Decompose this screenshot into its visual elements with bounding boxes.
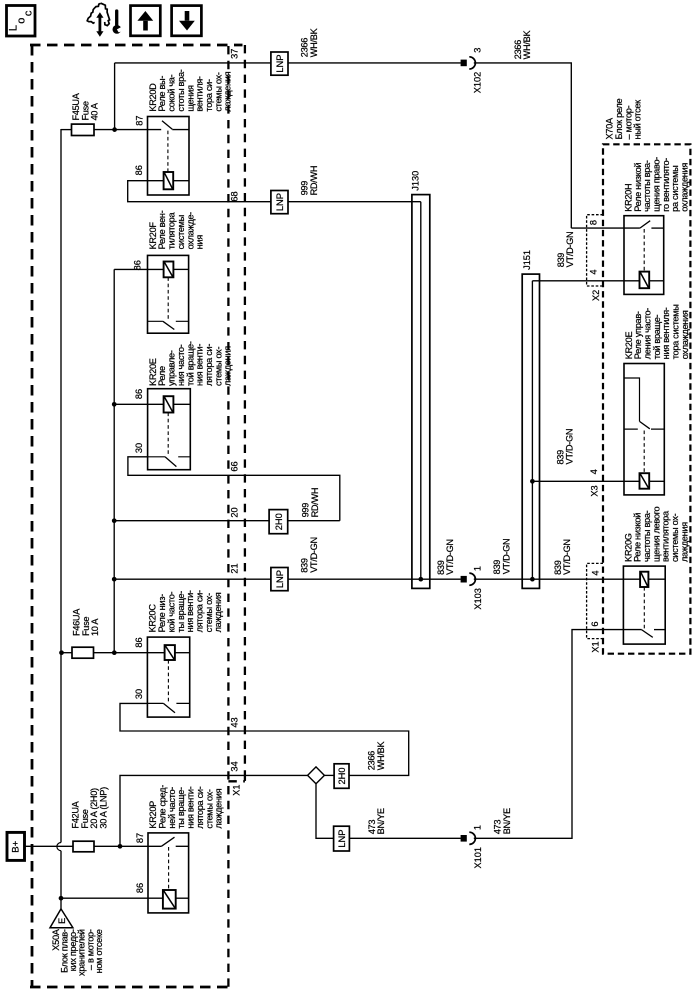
- svg-text:J130: J130: [411, 171, 421, 191]
- relay KR20E (X70A) switch blade: [640, 421, 650, 428]
- junction F42UA out: [118, 844, 123, 849]
- svg-text:34: 34: [229, 761, 239, 771]
- jumper J130: [412, 195, 430, 589]
- relay KR20E box: [148, 389, 191, 470]
- svg-text:BN/YE: BN/YE: [376, 808, 386, 834]
- svg-text:X1: X1: [591, 641, 601, 652]
- wire 2366 WH/BK X102 to X70A corner: [474, 63, 572, 228]
- svg-text:2H0: 2H0: [274, 513, 284, 530]
- relay KR20F switch: [148, 320, 189, 322]
- wire KR20G coil right: [648, 578, 665, 580]
- wire KR20D coil right: [173, 180, 189, 182]
- relay KR20D actuator: [167, 131, 169, 172]
- wire 999 RD/WH 20 2H0: [114, 520, 340, 522]
- wire KR20E 30 bend 66: [128, 457, 340, 521]
- relay KR20F box: [148, 255, 189, 333]
- svg-text:30: 30: [134, 443, 144, 453]
- svg-text:RD/WH: RD/WH: [309, 166, 319, 196]
- relay KR20F label: [148, 210, 205, 249]
- svg-text:E: E: [57, 918, 67, 924]
- svg-text:43: 43: [229, 717, 239, 727]
- relay KR20F coil: [164, 262, 174, 278]
- relay KR20G actuator: [643, 587, 645, 629]
- junction J151 conductor at 839 wire: [530, 577, 535, 582]
- wire KR20P 86 to ground: [61, 897, 163, 899]
- relay KR20D label: [148, 69, 233, 111]
- connector X103: [461, 573, 476, 585]
- svg-text:лаждения: лаждения: [213, 592, 223, 632]
- svg-text:VT/D-GN: VT/D-GN: [309, 537, 319, 573]
- svg-text:21: 21: [229, 563, 239, 573]
- svg-text:охлаждения: охлаждения: [680, 163, 690, 212]
- svg-text:ном отсеке: ном отсеке: [94, 929, 104, 973]
- svg-text:X101: X101: [473, 847, 483, 868]
- X1 connector strip (double dashed): [228, 45, 245, 987]
- svg-text:1: 1: [472, 825, 482, 830]
- svg-text:20: 20: [229, 507, 239, 517]
- fuse F45UA value label: [71, 92, 100, 120]
- svg-text:8: 8: [589, 220, 599, 225]
- wire 34 from F42UA junction: [120, 775, 308, 846]
- svg-text:86: 86: [134, 389, 144, 399]
- svg-text:L: L: [8, 25, 20, 31]
- crossover hop at B+ wire: [57, 843, 61, 851]
- relay KR20E (X70A) 87a path: [624, 378, 640, 421]
- adjustable-component icon (jagged outline with up-down arrow): [87, 3, 109, 37]
- wire 473 BN/YE X101 to KR20G pin6: [474, 630, 642, 839]
- option box LNP (wire 37): [271, 52, 288, 75]
- svg-text:ния: ния: [195, 235, 205, 250]
- wire label 2366 WH/BK (wire 43 end): [367, 741, 386, 771]
- svg-text:X102: X102: [473, 72, 483, 93]
- svg-text:WH/BK: WH/BK: [522, 30, 532, 60]
- svg-text:VT/D-GN: VT/D-GN: [502, 539, 512, 575]
- wire 839 J151 to KR20H pin4: [532, 280, 639, 282]
- wire 37 feed up from fuse junction: [114, 63, 116, 130]
- wire B+ to F42UA: [26, 845, 74, 847]
- wire 839 X103 to KR20G: [474, 578, 640, 580]
- down-arrow button: [172, 6, 202, 36]
- svg-text:30: 30: [134, 689, 144, 699]
- option box LNP (wire 21): [271, 568, 288, 591]
- up-arrow button: [131, 6, 161, 36]
- wire KR20F coil right: [173, 268, 188, 270]
- svg-text:40 A: 40 A: [90, 102, 100, 120]
- wire KR20F 86: [114, 268, 163, 270]
- label X70A: [605, 99, 643, 140]
- relay KR20E (X70A) label: [624, 304, 690, 359]
- svg-text:2H0: 2H0: [337, 767, 347, 784]
- svg-text:RD/WH: RD/WH: [310, 488, 320, 518]
- relay KR20E (X70A) box: [624, 364, 664, 495]
- wire label 999 RD/WH (wire 20): [300, 488, 319, 518]
- wrench icon: [113, 11, 124, 36]
- svg-text:86: 86: [134, 637, 144, 647]
- svg-text:ный отсек: ный отсек: [633, 99, 643, 140]
- svg-text:VT/D-GN: VT/D-GN: [445, 539, 455, 575]
- relay KR20C switch: [147, 702, 189, 704]
- wire KR20P coil right: [176, 897, 189, 899]
- svg-text:X1: X1: [231, 785, 241, 796]
- svg-text:J151: J151: [522, 250, 532, 270]
- relay KR20E (X70A) coil: [640, 473, 650, 489]
- wire label 839 VT/D-GN (X103-J151): [492, 539, 511, 575]
- relay KR20G box: [623, 566, 665, 644]
- wire F45UA out to KR20D 87: [94, 129, 161, 131]
- svg-text:87: 87: [135, 833, 145, 843]
- wire label 999 RD/WH (at LNP): [299, 166, 318, 196]
- svg-text:68: 68: [230, 191, 240, 201]
- svg-text:66: 66: [229, 461, 239, 471]
- svg-text:VT/D-GN: VT/D-GN: [562, 539, 572, 575]
- svg-text:LNP: LNP: [275, 55, 285, 73]
- option split diamond: [308, 767, 325, 784]
- svg-text:B+: B+: [11, 840, 22, 852]
- wire J130 internal conductor: [420, 202, 422, 580]
- connector X101: [461, 832, 476, 844]
- wire diamond to 2H0: [324, 774, 334, 776]
- relay KR20E (X70A) actuator: [643, 431, 645, 474]
- svg-text:3: 3: [472, 48, 482, 53]
- relay KR20P switch blade: [161, 837, 174, 846]
- relay KR20C actuator: [167, 660, 169, 702]
- svg-text:1: 1: [472, 566, 482, 571]
- relay KR20H switch blade: [640, 221, 650, 228]
- relay KR20E actuator: [167, 413, 169, 456]
- svg-text:86: 86: [135, 883, 145, 893]
- relay KR20P actuator: [168, 847, 170, 890]
- wire 37 to LNP: [115, 62, 271, 64]
- relay KR20C coil: [165, 645, 175, 660]
- connector X102: [461, 57, 476, 69]
- relay KR20F actuator: [167, 277, 169, 320]
- relay KR20G coil: [640, 572, 648, 587]
- fuse F46UA value label: [72, 608, 101, 636]
- wire KR20P 87 right stub: [176, 845, 189, 847]
- relay KR20D coil: [164, 172, 174, 189]
- svg-text:лаждения: лаждения: [223, 346, 233, 386]
- connector X2 dashed box: [587, 215, 603, 286]
- B+ terminal: [7, 832, 25, 860]
- svg-text:WH/BK: WH/BK: [376, 741, 386, 771]
- svg-text:лаждения: лаждения: [214, 788, 224, 828]
- junction F45UA out: [112, 127, 117, 132]
- svg-text:лаждения: лаждения: [223, 71, 233, 111]
- wire label 2366 WH/BK (at LNP): [299, 27, 318, 57]
- wire label 473 BN/YE (right): [493, 808, 512, 834]
- junction J130 conductor at 839 wire: [418, 577, 423, 582]
- svg-text:4: 4: [589, 269, 599, 274]
- svg-text:лаждения: лаждения: [679, 522, 689, 562]
- wire label 839 VT/D-GN (wire 21 left): [300, 537, 319, 573]
- svg-text:X2: X2: [591, 290, 601, 301]
- relay KR20E coil: [164, 396, 174, 412]
- junction riser F46UA: [59, 650, 64, 655]
- X50A fuse block dashed border: [30, 45, 243, 987]
- svg-text:10 A: 10 A: [90, 618, 100, 636]
- junction 839 wire tap: [112, 577, 117, 582]
- wire F42UA out to KR20P 87: [94, 845, 161, 847]
- option box LNP (wire 68): [271, 191, 288, 214]
- X1 strip end tick: [244, 775, 246, 781]
- label X50A: [51, 928, 104, 976]
- X70A relay box dashed border: [603, 144, 690, 653]
- junction J151 conductor X3 tap: [530, 479, 535, 484]
- svg-text:охлаждения: охлаждения: [680, 310, 690, 359]
- relay KR20P label: [148, 785, 223, 829]
- relay KR20E switch: [148, 456, 191, 458]
- wire 999 RD/WH LNP to J130: [288, 201, 421, 203]
- wire 473 BN/YE LNP to X101: [349, 837, 460, 839]
- junction ground KR20P 86: [59, 896, 64, 901]
- relay KR20G label: [623, 506, 689, 562]
- wire riser x61 lower to ground: [60, 851, 62, 909]
- wire F46UA left: [62, 652, 73, 654]
- LOC link box: [7, 6, 36, 37]
- fuse F42UA: [73, 841, 94, 852]
- wire KR20G switch right stub: [654, 629, 665, 631]
- relay KR20G switch blade: [642, 630, 653, 638]
- wire label 839 VT/D-GN (at X3): [555, 429, 574, 465]
- svg-text:4: 4: [589, 469, 599, 474]
- connector X1 (X70A) dashed box: [587, 563, 603, 638]
- relay KR20D box: [148, 117, 190, 196]
- relay KR20C label: [148, 590, 223, 632]
- wire KR20D 86 bend: [128, 181, 271, 202]
- jumper J151: [522, 274, 539, 588]
- wire 2366 WH/BK LNP to X102: [288, 62, 461, 64]
- fuse F42UA value label: [71, 787, 109, 829]
- wire KR20E(r) coil right: [649, 480, 664, 482]
- svg-text:LNP: LNP: [337, 830, 347, 848]
- wire KR20D 87 right stub: [172, 129, 189, 131]
- wire KR20E 86: [114, 403, 163, 405]
- wire riser x61 upper: [60, 129, 62, 843]
- option box 2H0 (wire 34): [334, 764, 349, 789]
- svg-text:87: 87: [135, 115, 145, 125]
- svg-text:BN/YE: BN/YE: [502, 808, 512, 834]
- svg-text:86: 86: [134, 165, 144, 175]
- wire label 839 VT/D-GN (J130-X103): [436, 539, 455, 575]
- svg-text:86: 86: [133, 260, 143, 270]
- relay KR20H actuator: [643, 229, 645, 272]
- option box LNP (wire 34): [334, 826, 350, 851]
- wire label 2366 WH/BK (at X102): [513, 30, 532, 60]
- svg-text:VT/D-GN: VT/D-GN: [565, 429, 575, 465]
- option box 2H0 (wire 20): [269, 510, 288, 534]
- relay KR20P coil: [163, 890, 176, 909]
- svg-text:LNP: LNP: [275, 570, 285, 588]
- junction KR20E 86 tap: [112, 402, 117, 407]
- relay KR20H box: [624, 216, 664, 295]
- junction F46UA out: [112, 650, 117, 655]
- wire label 473 BN/YE (left): [367, 808, 386, 834]
- svg-text:X3: X3: [590, 485, 600, 496]
- wire J151 internal conductor: [531, 281, 533, 579]
- svg-text:6: 6: [590, 621, 600, 626]
- wire KR20H switch right stub: [651, 227, 663, 229]
- svg-text:X103: X103: [473, 588, 483, 609]
- relay KR20C box: [147, 637, 189, 717]
- svg-text:VT/D-GN: VT/D-GN: [565, 232, 575, 268]
- relay KR20E (X70A) contact line: [624, 428, 664, 430]
- wire 839 VT/D-GN 21 main: [114, 578, 461, 580]
- junction 2H0 wire tap: [112, 518, 117, 523]
- relay KR20H label: [624, 157, 690, 212]
- relay KR20D switch blade: [162, 121, 172, 130]
- svg-text:o: o: [16, 18, 28, 24]
- wire F45UA feed riser top corner: [61, 129, 72, 131]
- wire label 839 VT/D-GN (at X2): [556, 232, 575, 268]
- relay KR20E label: [148, 341, 233, 386]
- wire 839 J151 to KR20E pin4 X3: [531, 480, 640, 482]
- relay KR20H coil: [640, 272, 650, 289]
- wire label 839 VT/D-GN (J151-X1): [553, 539, 572, 575]
- ground E triangle: [50, 909, 73, 928]
- svg-text:WH/BK: WH/BK: [309, 27, 319, 57]
- wire 2366 to KR20H pin8: [571, 227, 640, 229]
- relay KR20P box: [148, 833, 189, 913]
- wire vbus x114 KR20F-F46UA: [113, 269, 115, 652]
- svg-text:4: 4: [591, 570, 601, 575]
- svg-text:LNP: LNP: [275, 193, 285, 211]
- fuse F45UA: [72, 124, 95, 135]
- wire KR20C 30 bend 43: [120, 703, 409, 775]
- wire F46UA out to KR20C 86: [94, 652, 165, 654]
- wire 473 BN/YE diamond down to LNP: [316, 784, 334, 839]
- svg-text:30 A (LNP): 30 A (LNP): [99, 787, 109, 829]
- wire KR20H coil right: [649, 280, 664, 282]
- fuse F46UA: [72, 647, 94, 658]
- wire KR20E coil right: [173, 403, 190, 405]
- wire KR20C coil right: [175, 652, 190, 654]
- svg-text:37: 37: [230, 49, 240, 59]
- svg-text:c: c: [22, 10, 34, 16]
